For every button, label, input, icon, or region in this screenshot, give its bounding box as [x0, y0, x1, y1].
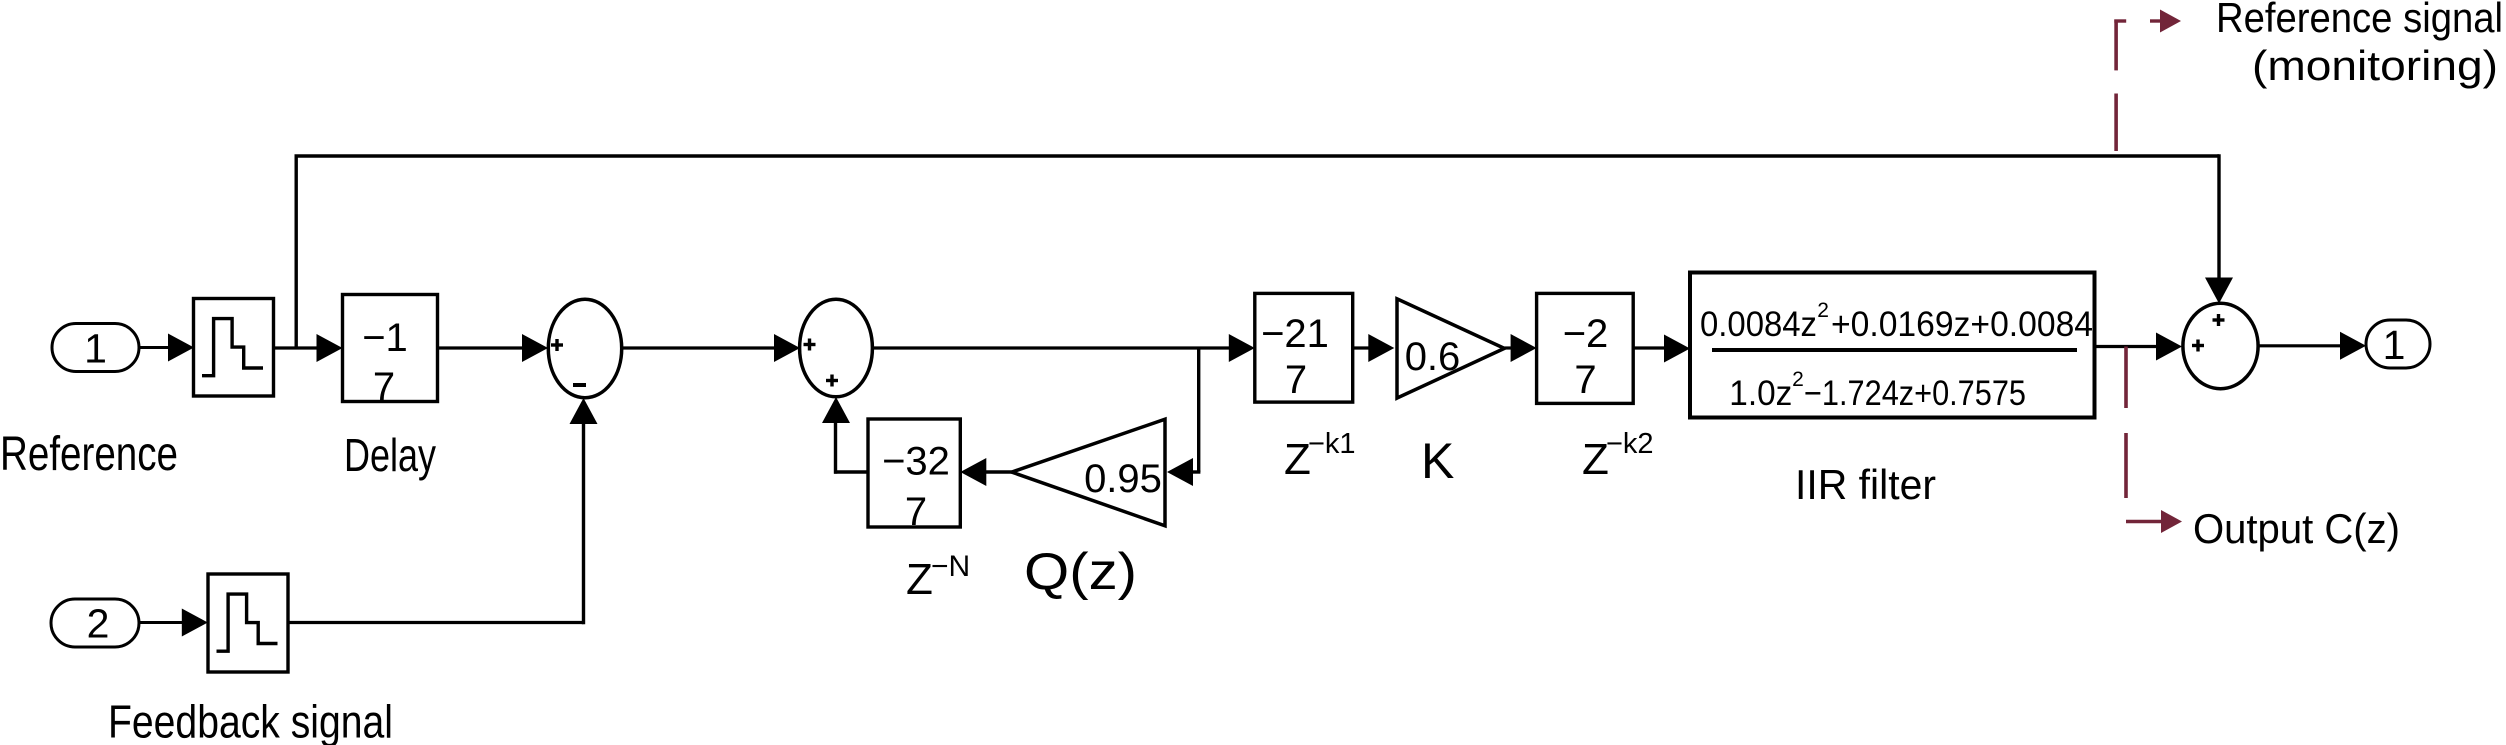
svg-text:7: 7: [373, 365, 395, 409]
svg-text:−k2: −k2: [1606, 428, 1654, 460]
svg-text:K: K: [1421, 433, 1454, 489]
wire sum S3 to output port: [2258, 332, 2366, 360]
wire gain K to Z-k2: [1504, 334, 1536, 362]
pulse source block Feedback: [208, 574, 288, 672]
wire Feedback block to sum S1 bottom: [288, 398, 598, 624]
svg-text:−1: −1: [362, 316, 408, 360]
annotation arrowhead monitoring: [2160, 10, 2181, 33]
wire top line down to sum S3: [2205, 154, 2233, 303]
block Delay (-1/7): [343, 295, 438, 410]
svg-text:0.0084z: 0.0084z: [1700, 305, 1817, 344]
block Z-N (-32/7): [868, 419, 960, 534]
annotation dashed line Output C(z): [2126, 347, 2162, 522]
label Z^-k2: [1582, 428, 1654, 484]
svg-text:Z: Z: [1284, 435, 1311, 484]
wire Z-N block to sum S2 bottom: [822, 397, 868, 474]
svg-text:0.6: 0.6: [1405, 335, 1461, 379]
svg-text:7: 7: [1574, 358, 1596, 402]
label Z^-N: [906, 550, 970, 604]
svg-text:Z: Z: [906, 555, 933, 604]
pulse source block Reference: [194, 299, 274, 397]
svg-text:−32: −32: [882, 440, 950, 484]
wire Z-k2 to IIR filter: [1633, 335, 1690, 363]
svg-text:IIR filter: IIR filter: [1795, 461, 1936, 508]
svg-text:−k1: −k1: [1308, 428, 1356, 460]
wire sum S2 to Z-k1 block: [873, 334, 1255, 362]
gain K 0.6 triangle: [1397, 299, 1504, 398]
wire top horizontal line: [295, 154, 2220, 157]
svg-text:1: 1: [2383, 322, 2406, 368]
sum S3: [2183, 303, 2258, 388]
wire branch down to Q(z) gain: [1167, 348, 1200, 486]
wire Reference block to Delay block with branch node: [274, 334, 343, 362]
svg-text:+0.0169z+0.0084: +0.0169z+0.0084: [1831, 305, 2093, 344]
input port 2 oval: [51, 599, 139, 647]
svg-text:(monitoring): (monitoring): [2252, 42, 2498, 89]
svg-text:Delay: Delay: [344, 429, 436, 481]
block Z-k2 (-2/7): [1537, 293, 1634, 403]
svg-text:Output C(z): Output C(z): [2193, 505, 2400, 552]
svg-text:2: 2: [1817, 299, 1829, 322]
svg-text:7: 7: [905, 490, 927, 534]
wire input1 to Reference block: [139, 334, 194, 362]
svg-text:Reference: Reference: [0, 428, 178, 481]
svg-text:1.0z: 1.0z: [1729, 374, 1792, 413]
input port 1 oval: [52, 324, 139, 372]
wire IIR filter to sum S3: [2095, 333, 2183, 361]
sum S2: [800, 299, 873, 397]
svg-text:2: 2: [87, 601, 110, 647]
svg-text:Feedback signal: Feedback signal: [108, 696, 393, 745]
svg-text:−21: −21: [1261, 312, 1329, 356]
svg-text:Reference signal: Reference signal: [2216, 0, 2503, 41]
wire Q(z) to Z-N block: [960, 458, 1011, 486]
annotation dashed line Reference signal monitoring: [2114, 20, 2163, 152]
svg-text:1: 1: [84, 326, 107, 372]
sum S1: [548, 299, 621, 398]
annotation arrowhead output: [2161, 510, 2182, 533]
block IIR filter transfer function: [1690, 273, 2095, 418]
wire Z-k1 to gain K: [1353, 334, 1395, 362]
svg-text:0.95: 0.95: [1084, 457, 1162, 501]
wire input2 to Feedback block: [139, 609, 208, 637]
wire sum S1 to sum S2: [622, 334, 800, 362]
svg-text:Z: Z: [1582, 435, 1609, 484]
wire Delay to sum S1: [438, 334, 549, 362]
label Z^-k1: [1284, 428, 1356, 484]
svg-text:Q(z): Q(z): [1024, 543, 1137, 601]
svg-text:7: 7: [1285, 358, 1307, 402]
output port 1 oval: [2366, 320, 2430, 368]
block Z-k1 (-21/7): [1255, 293, 1353, 402]
svg-text:−2: −2: [1563, 312, 1609, 356]
svg-text:−1.724z+0.7575: −1.724z+0.7575: [1804, 374, 2026, 413]
svg-text:2: 2: [1792, 368, 1804, 391]
wire branch up to top line: [295, 156, 298, 348]
svg-text:−N: −N: [931, 550, 970, 583]
gain Q(z) 0.95 triangle: [1012, 419, 1165, 526]
